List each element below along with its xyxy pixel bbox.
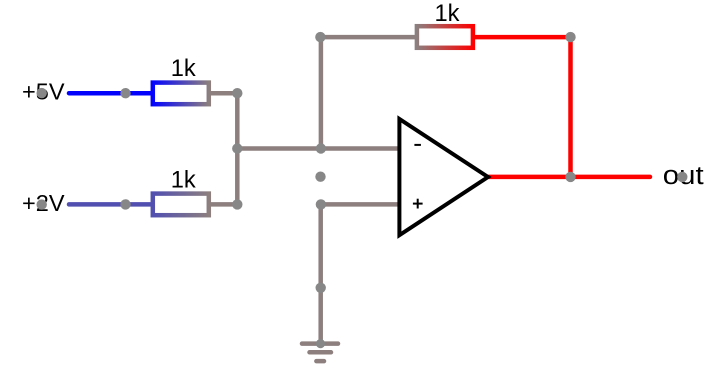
node post dot on +2V label <box>37 199 47 209</box>
resistor R2 1k (box, slate-to-gray gradient) <box>153 194 209 216</box>
node non-inverting input junction <box>316 199 326 209</box>
node feedback top-left junction <box>315 32 325 42</box>
op-amp non-inverting pin marker + <box>413 203 423 205</box>
node junction on +2V wire <box>120 199 130 209</box>
ground symbol <box>302 341 338 346</box>
node feedback top-right junction <box>565 32 575 42</box>
op-amp U1 (triangle) <box>399 119 488 235</box>
wire: ground node to op-amp non-inverting input (gray) <box>321 202 399 207</box>
node A bottom junction <box>232 199 242 209</box>
node output junction <box>565 172 575 182</box>
wire: R1 right lead to node A (gray) <box>210 91 237 96</box>
wire: node A to op-amp inverting input (gray) <box>237 146 399 151</box>
wire: feedback left lead from node A top (gray) <box>320 35 416 40</box>
node op-amp center marker <box>315 172 325 182</box>
svg-text:1k: 1k <box>171 168 196 194</box>
node ground top junction <box>316 339 325 348</box>
node junction on ground wire <box>316 283 326 293</box>
wire: vertical from feedback node down to inverting input (gray) <box>319 37 324 148</box>
svg-text:1k: 1k <box>435 1 460 27</box>
wire: op-amp output to out label (red) <box>489 175 650 180</box>
wire: vertical down to ground (gray) <box>318 204 323 343</box>
wire: R2 right lead to node A (gray) <box>210 202 237 207</box>
wire: vertical bus node A (gray) <box>235 93 240 204</box>
op-amp inverting pin marker - <box>414 144 421 146</box>
resistor R1 1k (box, blue-to-gray gradient) <box>153 83 209 105</box>
node junction on +5V wire <box>120 88 130 98</box>
node post dot on +5V label <box>37 88 47 98</box>
node inverting input junction <box>316 143 326 153</box>
svg-text:1k: 1k <box>171 56 196 82</box>
wire: feedback vertical to output (red) <box>568 37 573 177</box>
resistor R3 1k feedback (box, gray-to-red gradient) <box>417 26 473 48</box>
node A middle junction <box>232 143 242 153</box>
node post dot on out label <box>677 172 687 182</box>
wire: +2V rail to R2 (slate) <box>69 202 152 207</box>
wire: R3 right lead (red) <box>474 35 571 40</box>
wire: +5V rail to R1 (blue) <box>69 91 152 96</box>
node A top junction <box>232 88 242 98</box>
